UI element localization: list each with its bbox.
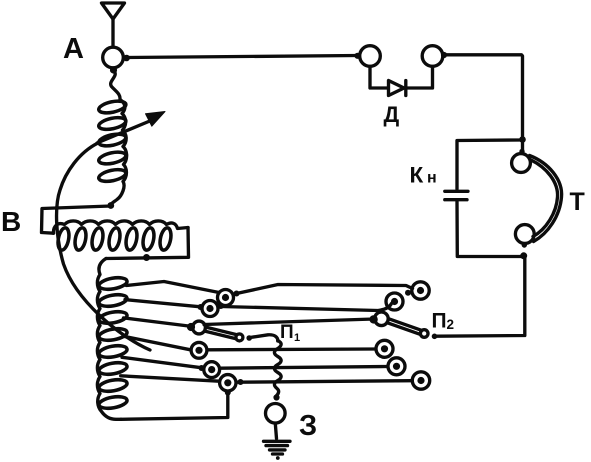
switch П1 wiper pivot — [193, 321, 206, 334]
ground symbol bar 4 — [273, 452, 283, 455]
wire П1 pivot to П2 pivot — [204, 319, 374, 325]
antenna coil L1 spine — [111, 71, 127, 206]
svg-text:А: А — [63, 33, 84, 65]
wire phones bottom to П2 lever — [437, 257, 525, 336]
wire detector to right rail — [443, 55, 523, 154]
wire link S3 to P3 — [208, 347, 376, 351]
coupling coil L2 spine — [53, 221, 188, 233]
switch П1 stud S5 — [220, 375, 236, 391]
switch П2 wiper pivot — [375, 312, 389, 326]
junction dot П1 lever tip — [246, 335, 252, 341]
junction dot at detector left terminal — [354, 53, 360, 59]
variometer arrowhead — [146, 112, 166, 127]
junction dot below phones — [520, 252, 527, 259]
junction blob phones top — [519, 149, 524, 154]
coupling coil L2 loops — [56, 227, 70, 251]
junction dot above ground terminal — [273, 394, 279, 400]
wire tap T4 to stud S3 — [124, 336, 191, 350]
detector left terminal circle — [360, 46, 381, 67]
junction dot above phones — [519, 136, 526, 143]
wire tap T3 to wiper П1 — [124, 318, 193, 327]
antenna symbol — [102, 3, 125, 19]
switch П2 stud P4 — [388, 358, 405, 375]
switch П1 stud S4 — [204, 362, 220, 378]
svg-text:К: К — [410, 163, 424, 188]
headphones bottom earpiece — [515, 225, 534, 244]
headphones headband outer arc — [530, 156, 562, 242]
wire to ground symbol — [275, 424, 276, 439]
switch П2 wiper lever — [388, 319, 421, 334]
wire link S5 to P5 — [237, 381, 412, 383]
terminal A circle — [103, 47, 124, 68]
junction blob phones bottom — [522, 242, 527, 247]
variometer arrow arc — [57, 143, 150, 350]
svg-text:Д: Д — [384, 102, 400, 127]
svg-text:П: П — [432, 310, 447, 333]
wire tap T6 to stud S5 — [121, 376, 219, 381]
junction dot right of A — [123, 55, 130, 62]
wire antenna stem — [111, 19, 114, 47]
junction dot coil L1 bottom — [107, 202, 114, 209]
svg-text:Т: Т — [570, 188, 585, 216]
ground symbol bar 2 — [266, 444, 288, 447]
terminal З circle — [266, 404, 286, 424]
headphones headband inner arc — [531, 160, 558, 237]
wire tap T5 to stud S4 — [122, 357, 202, 368]
switch П2 stud P2 — [386, 293, 403, 310]
antenna coil L1 loops — [98, 99, 127, 115]
wire tap T1 to stud S1 — [126, 282, 219, 293]
wire diode right leg — [406, 67, 433, 89]
capacitor Кн bottom plate — [445, 198, 467, 201]
svg-text:В: В — [1, 206, 21, 237]
switch П2 stud P3 — [376, 340, 393, 357]
wire L2 right end down and back — [106, 228, 189, 259]
wire link S2 to P2 — [221, 304, 392, 311]
switch П2 stud P5 — [412, 372, 429, 389]
switch П1 stud S2 — [202, 301, 218, 317]
ground symbol bar 1 — [264, 440, 291, 443]
wire link S1 to P1 — [237, 285, 413, 294]
wire A to detector — [127, 56, 358, 58]
svg-text:н: н — [427, 170, 437, 187]
svg-text:З: З — [299, 410, 317, 442]
switch П2 stud P1 — [412, 282, 429, 299]
junction dot below A — [110, 66, 117, 73]
wire link S4 to P4 — [221, 367, 388, 369]
capacitor Кн top plate — [445, 190, 468, 193]
junction dot below S5 — [225, 390, 231, 396]
diode Д triangle — [389, 81, 405, 96]
switch П1 wiper lever — [205, 327, 236, 338]
headphones top earpiece — [512, 154, 531, 173]
junction dot П2 lever tip — [432, 334, 438, 340]
svg-text:2: 2 — [447, 317, 455, 332]
svg-text:П: П — [280, 322, 294, 343]
svg-text:1: 1 — [294, 332, 300, 344]
wire to blocking capacitor top — [457, 140, 523, 189]
squiggle wire to ground — [274, 341, 281, 396]
junction dot right of detector — [441, 52, 447, 58]
variometer arrow shaft — [97, 121, 151, 144]
slider bracket B — [42, 206, 111, 233]
wire tap T2 to stud S2 — [125, 300, 201, 307]
ground symbol bar 3 — [270, 448, 286, 451]
wire detector left leg — [370, 67, 388, 89]
wire L3 bottom to stud S5 — [121, 393, 228, 420]
switch П1 stud S1 — [218, 290, 234, 306]
tuning coil L3 loops — [98, 276, 128, 291]
wire П1 lever to ground squiggle — [250, 335, 278, 341]
diode Д cathode bar — [404, 81, 407, 96]
junction dot on L2 return wire — [143, 254, 150, 261]
switch П1 stud S3 — [191, 342, 207, 358]
detector right terminal circle — [422, 46, 443, 67]
ground symbol tip dot — [276, 456, 280, 460]
tuning coil L3 spine — [97, 259, 121, 420]
wire capacitor bottom to phones bottom — [457, 202, 523, 257]
